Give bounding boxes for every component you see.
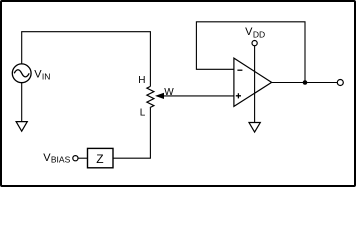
plus sign (op-amp non-inverting input) <box>236 93 241 98</box>
wire: wiper to op-amp + input <box>163 95 234 97</box>
wire: feedback loop (output to - input) <box>196 22 305 83</box>
impedance block Z <box>88 148 114 167</box>
wire: op-amp output <box>272 82 338 84</box>
wire: VDD to ground through op-amp <box>254 46 256 123</box>
svg-text:V: V <box>245 26 253 38</box>
source VIN <box>12 64 31 83</box>
minus sign (op-amp inverting input) <box>237 69 242 71</box>
potentiometer (zigzag) <box>147 86 154 108</box>
label VDD <box>245 26 265 40</box>
ground (below VIN) <box>16 122 27 132</box>
svg-text:IN: IN <box>42 71 51 81</box>
junction dot (output/feedback) <box>303 80 308 85</box>
op-amp U1 <box>234 58 272 106</box>
border frame <box>1 1 355 186</box>
svg-text:DD: DD <box>253 30 265 40</box>
svg-text:BIAS: BIAS <box>51 155 71 165</box>
terminal VDD <box>252 41 257 46</box>
wire: pot L to Z box <box>113 108 150 158</box>
svg-text:L: L <box>140 108 146 119</box>
terminal VBIAS <box>73 156 78 161</box>
label VBIAS <box>43 152 70 165</box>
svg-text:H: H <box>138 75 145 86</box>
ground (below op-amp) <box>249 123 260 133</box>
wire: VIN bottom to ground <box>21 83 23 122</box>
wire: VBIAS terminal to Z box <box>78 157 87 159</box>
wire: VIN top to pot H <box>22 32 151 87</box>
label VIN <box>34 69 50 82</box>
svg-text:Z: Z <box>96 152 103 166</box>
svg-text:W: W <box>164 87 174 98</box>
terminal: output <box>337 80 343 86</box>
wiper arrow <box>155 93 164 99</box>
